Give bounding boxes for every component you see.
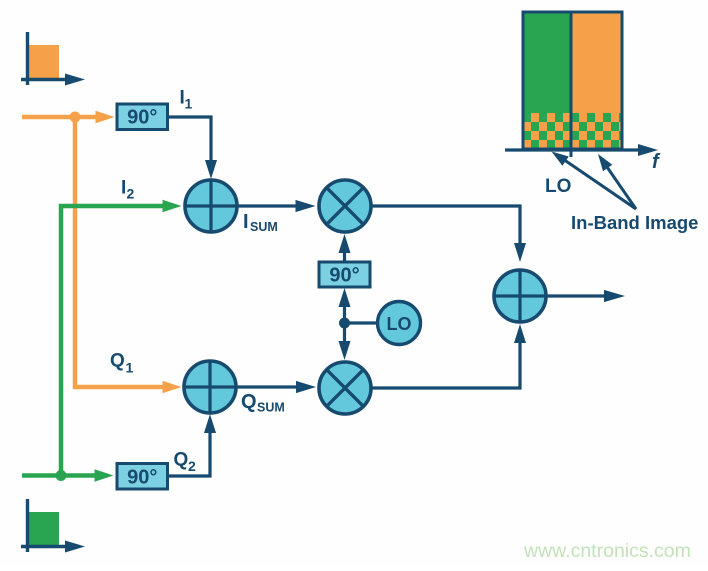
mixer I (multiplier) — [319, 180, 371, 232]
input Q spectrum icon (green) — [21, 499, 85, 553]
label I1 — [180, 88, 193, 112]
summer Q (adder) — [184, 361, 236, 413]
wire LO circle to junction — [345, 321, 378, 324]
svg-text:LO: LO — [387, 314, 412, 334]
label ISUM — [243, 211, 278, 234]
summer I (adder) — [185, 180, 237, 232]
svg-text:I: I — [121, 178, 126, 199]
label QSUM — [241, 391, 285, 415]
spectrum plot: orange band — [571, 12, 622, 149]
wire LO junction to mixer Q (down) — [339, 323, 351, 360]
svg-text:Q: Q — [241, 391, 257, 413]
spectrum plot: green band — [523, 12, 571, 149]
svg-text:90°: 90° — [329, 264, 359, 286]
junction LO — [339, 318, 350, 329]
wire LO to mixer I (up) — [339, 234, 351, 262]
wire LO junction to 90deg box — [339, 288, 351, 323]
svg-text:Q: Q — [174, 450, 189, 471]
wire I1 — [169, 117, 217, 179]
svg-text:1: 1 — [185, 96, 193, 112]
phase shifter 90deg (I input) — [117, 104, 168, 130]
mixer Q (multiplier) — [319, 362, 371, 414]
input I spectrum icon (orange) — [21, 32, 85, 86]
frequency axis — [505, 144, 658, 156]
wire Q2 — [169, 414, 216, 476]
svg-text:www.cntronics.com: www.cntronics.com — [523, 540, 691, 562]
svg-text:2: 2 — [127, 186, 135, 202]
svg-text:Q: Q — [110, 351, 125, 372]
wire output — [547, 290, 625, 302]
wire Qsum to mixer — [237, 381, 316, 393]
wire mixer Q to output summer — [372, 324, 526, 388]
wire orange input (I path) — [22, 111, 115, 123]
spectrum border — [523, 12, 622, 149]
svg-text:SUM: SUM — [257, 401, 285, 415]
arrow to image point — [598, 154, 636, 209]
oscillator LO — [378, 302, 421, 345]
spectrum overlap checkerboard — [523, 113, 622, 149]
phase shifter 90deg (LO) — [319, 262, 370, 287]
label Q1 — [110, 351, 134, 376]
spectrum divider (LO line) — [570, 12, 573, 157]
svg-text:I: I — [243, 211, 249, 233]
phase shifter 90deg (Q input) — [117, 464, 168, 490]
svg-text:2: 2 — [188, 458, 196, 474]
label Q2 — [174, 450, 197, 475]
svg-text:SUM: SUM — [250, 220, 278, 234]
junction orange — [70, 112, 81, 123]
arrow to LO point — [552, 152, 637, 210]
wire green vertical + I2 branch — [61, 200, 182, 476]
summer output (adder) — [494, 270, 546, 322]
svg-text:90°: 90° — [127, 466, 157, 488]
wire orange vertical + Q1 branch — [75, 117, 182, 393]
wire green input (Q path) — [22, 469, 114, 481]
wire Isum to mixer — [238, 200, 316, 212]
svg-text:90°: 90° — [127, 107, 157, 129]
wire mixer I to output summer — [372, 206, 526, 262]
label I2 — [121, 178, 135, 202]
svg-text:In-Band Image: In-Band Image — [571, 212, 698, 233]
junction green — [56, 470, 67, 481]
svg-text:LO: LO — [545, 176, 571, 197]
svg-text:1: 1 — [126, 360, 134, 376]
